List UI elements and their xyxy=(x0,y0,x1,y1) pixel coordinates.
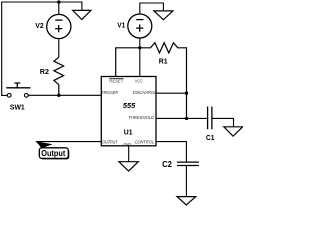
svg-text:555: 555 xyxy=(123,101,136,110)
svg-text:C1: C1 xyxy=(206,133,215,142)
wire: V1 bottom to VCC pin xyxy=(139,38,141,77)
node: junction threshold xyxy=(185,117,188,120)
ground (GND pin) xyxy=(119,162,138,171)
output flag pennant xyxy=(36,141,53,148)
wire: V1 top to ground xyxy=(140,3,164,14)
node: junction R2 / trigger wire xyxy=(57,94,60,97)
wire: OUTPUT pin to flag xyxy=(36,141,102,143)
wire: RESET pin up, rail, resistor R1, drop to right xyxy=(116,43,187,119)
pin label RESET (with overline) xyxy=(109,78,123,80)
wire: V2 to R2 xyxy=(58,39,60,58)
node: junction V1 / rail xyxy=(138,46,141,49)
pushbutton SW1 xyxy=(7,93,11,97)
resistor R2 xyxy=(54,57,64,95)
wire: DISCHARGE pin xyxy=(156,92,187,94)
ground (top rail, right of V2) xyxy=(73,10,91,19)
wire: top-left rail and left drop to SW1 xyxy=(2,2,82,95)
svg-text:GND: GND xyxy=(123,142,131,147)
node: junction V2 / top rail xyxy=(57,0,60,3)
svg-text:V1: V1 xyxy=(117,20,125,29)
voltage source V1 xyxy=(128,14,152,38)
wire: GND pin down xyxy=(128,146,130,162)
capacitor C2 xyxy=(177,162,199,165)
svg-text:RESET: RESET xyxy=(109,79,124,84)
svg-text:TRIGGER: TRIGGER xyxy=(101,90,118,95)
wire: THRESHOLD pin to C1 xyxy=(156,117,207,119)
svg-text:VCC: VCC xyxy=(135,78,143,83)
ground (V1) xyxy=(154,11,173,20)
svg-text:R2: R2 xyxy=(40,67,49,76)
svg-text:U1: U1 xyxy=(124,128,133,137)
voltage source V2 xyxy=(47,14,71,38)
svg-text:OUTPUT: OUTPUT xyxy=(102,139,119,144)
svg-text:Output: Output xyxy=(41,149,65,158)
ground (C2) xyxy=(177,197,196,205)
svg-text:CONTROL: CONTROL xyxy=(135,139,155,144)
wire: switch to TRIGGER pin xyxy=(28,94,101,96)
svg-text:THRESHOLD: THRESHOLD xyxy=(128,115,154,120)
svg-text:V2: V2 xyxy=(35,21,44,30)
wire: C2 to ground xyxy=(185,166,187,197)
ground (C1) xyxy=(224,127,243,136)
svg-text:C2: C2 xyxy=(162,160,172,169)
op-amp U1: 555 timer box xyxy=(101,77,156,146)
output label box xyxy=(40,149,69,160)
svg-text:R1: R1 xyxy=(159,57,168,66)
wire: CONTROL pin to C2 xyxy=(156,142,186,162)
node: junction discharge xyxy=(185,92,188,95)
wire: C1 to ground xyxy=(212,118,234,126)
wire: V2 top stub xyxy=(58,2,60,15)
svg-text:SW1: SW1 xyxy=(10,105,25,112)
capacitor C1 xyxy=(208,107,212,130)
svg-text:DISCHARGE: DISCHARGE xyxy=(133,90,158,95)
